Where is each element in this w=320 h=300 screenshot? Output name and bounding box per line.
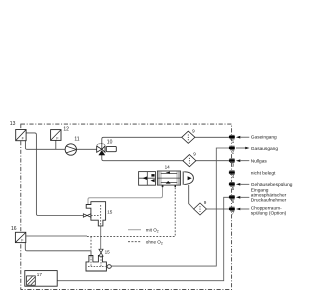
analyzer 14 detector dome [183,171,193,184]
connector 5 (Gehaeusebespuelung) [229,182,235,191]
connector 2 (Gasausgang) [229,146,235,155]
wire (mit O2, gray): measuring cell port down and left to pressure switch 15 top port [88,187,163,205]
wire: filter F16 right port (solid part, mit O2) [26,235,87,237]
wire: filter F16 bottom port to lower block 15 left stub [25,243,91,256]
svg-text:9: 9 [193,152,196,157]
pump P11 [65,144,76,155]
legend ohne O2 [128,239,163,245]
filter box 17 [25,271,57,287]
housing boundary (dash-dot enclosure) [21,124,232,289]
svg-text:9: 9 [204,200,207,205]
svg-text:11: 11 [74,136,79,142]
svg-text:9: 9 [192,128,195,133]
bowtie valve on lower block 15 [99,249,103,253]
connector 3 (Nullgas) [229,158,235,167]
wire: pump P11 outlet to valve V10 [77,148,97,150]
arrow into connector 6 [236,196,240,199]
bowtie inlet valve of pressure switch 15 [83,214,87,217]
arrow out of connector 2 [236,147,245,149]
svg-text:12: 12 [63,127,69,133]
svg-text:Gehäusebespülung: Gehäusebespülung [251,182,293,188]
valve V10 (3/2-way solenoid valve) [97,143,117,155]
outlet nozzle of lower block 15 [107,265,111,269]
svg-text:13: 13 [10,121,16,127]
wire: valve V10 bottom port to restrictor 9b and connector 3 (Nullgas) [102,155,229,161]
wire: filter F13 right port to valve block 15 feed (via x=36.4 vertical) [26,133,83,216]
connector 7 (Chopperraumspuelung) [229,207,235,216]
svg-text:Druckaufnehmer: Druckaufnehmer [251,198,287,204]
arrow into connector 1 [236,136,240,139]
svg-text:Gasausgang: Gasausgang [251,146,279,152]
restrictor 9a [182,128,195,143]
filter F12 [51,130,61,141]
arrow into connector 3 [236,159,240,162]
wire: filter F12 stub down to pump suction line [55,140,57,149]
wire: detector dome port to restrictor 9c and connector 7 (Chopperraumspuelung) [189,185,229,209]
svg-text:17: 17 [37,272,43,277]
wire: pressure switch 15 stem down to lower block bowtie valve [100,226,102,250]
arrow into connector 5 [236,183,240,186]
wire (ohne O2, dashed): filter line to analyzer bottom port [87,187,175,237]
filter F13 [16,130,26,141]
svg-text:Nullgas: Nullgas [251,159,268,165]
connector 4 (nicht belegt) [229,170,235,179]
svg-text:14: 14 [165,164,171,169]
svg-text:10: 10 [107,139,113,145]
restrictor 9b [183,152,196,167]
filter F16 [15,232,25,242]
lower block 15 (purge flow unit) [86,249,111,271]
connector 6 (Eingang atmosphaerischer Druckaufnehmer) [229,195,235,204]
svg-text:15: 15 [105,249,111,254]
legend mit O2 [128,227,159,233]
analyzer 14 measuring cell (cylinder) [157,171,180,187]
wire: filter F13 bottom port to pump suction line [25,141,65,150]
wire: connector 2 (Gasausgang) down right side to lower block 15 outlet [111,148,229,266]
wire: connector 6 down to filter box 17 outlet [35,197,229,280]
svg-text:spülung (Option): spülung (Option) [251,211,287,217]
svg-text:15: 15 [107,210,113,215]
wire (ohne O2, dashed): branch down to lower block left stub [90,236,92,250]
svg-text:nicht belegt: nicht belegt [251,170,276,176]
wire: valve V10 top port to restrictor 9a and connector 1 (Gaseingang) [102,137,229,149]
svg-text:Gaseingang: Gaseingang [251,134,277,140]
connector 1 (Gaseingang) [229,135,235,144]
pressure switch 15 (upper block) [83,202,105,226]
analyzer 14 receiver box [139,172,156,186]
restrictor 9c [194,200,207,215]
svg-text:16: 16 [11,226,17,232]
arrow into connector 7 [236,208,240,211]
